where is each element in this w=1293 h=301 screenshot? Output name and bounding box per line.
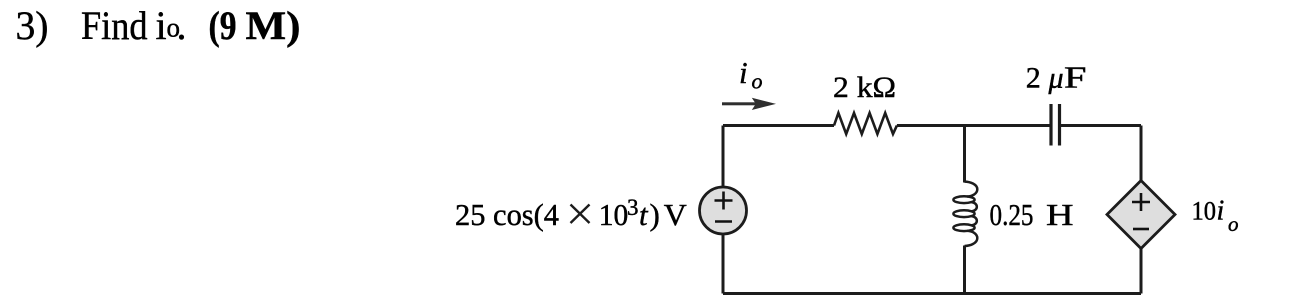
voltage source Vs plus sign	[715, 192, 733, 210]
arrow io current direction	[722, 98, 776, 110]
svg-text:10: 10	[1192, 197, 1217, 226]
dependent source D1 plus sign	[1132, 193, 1150, 211]
capacitor C1 left plate	[1049, 104, 1052, 146]
svg-text:): )	[650, 197, 660, 232]
wire bottom segment	[723, 292, 1141, 295]
svg-text:i: i	[1217, 196, 1225, 227]
wire top left segment	[723, 124, 834, 127]
svg-text:H: H	[1046, 197, 1074, 232]
wire top middle segment	[897, 124, 1051, 127]
svg-text:M): M)	[246, 3, 301, 48]
dependent source D1 minus sign	[1133, 228, 1149, 231]
svg-text:μ: μ	[1048, 62, 1064, 95]
svg-text:2: 2	[1026, 62, 1041, 95]
wire middle vertical upper	[963, 126, 966, 183]
svg-text:o: o	[1228, 212, 1239, 236]
svg-text:25 cos(4: 25 cos(4	[455, 197, 559, 232]
svg-text:i: i	[739, 55, 748, 90]
inductor L1 0.25 H coil	[953, 182, 977, 246]
svg-text:3): 3)	[16, 3, 49, 48]
svg-text:.: .	[177, 3, 187, 48]
wire left vertical lower	[722, 234, 725, 294]
wire middle vertical lower	[963, 246, 966, 294]
wire right vertical upper	[1140, 126, 1143, 182]
capacitor C1 right plate	[1058, 104, 1061, 146]
voltage source Vs minus sign	[715, 220, 732, 223]
resistor R1 2 kOhm zigzag	[834, 113, 897, 134]
wire top right segment	[1060, 124, 1142, 127]
svg-text:10: 10	[599, 197, 629, 232]
svg-text:3: 3	[627, 195, 639, 220]
voltage source Vs circle body	[700, 187, 747, 234]
svg-text:Find: Find	[81, 3, 148, 48]
svg-text:F: F	[1064, 60, 1087, 95]
svg-text:0.25: 0.25	[990, 197, 1034, 232]
svg-text:2 kΩ: 2 kΩ	[833, 71, 896, 104]
svg-text:t: t	[639, 197, 649, 232]
label source times sign	[571, 205, 590, 224]
wire right vertical lower	[1140, 248, 1143, 294]
svg-text:i: i	[156, 3, 167, 48]
dependent source D1 diamond body	[1107, 181, 1175, 249]
svg-text:V: V	[664, 197, 688, 232]
svg-text:o: o	[752, 69, 763, 94]
svg-text:(9: (9	[209, 3, 237, 48]
wire left vertical upper	[722, 126, 725, 188]
